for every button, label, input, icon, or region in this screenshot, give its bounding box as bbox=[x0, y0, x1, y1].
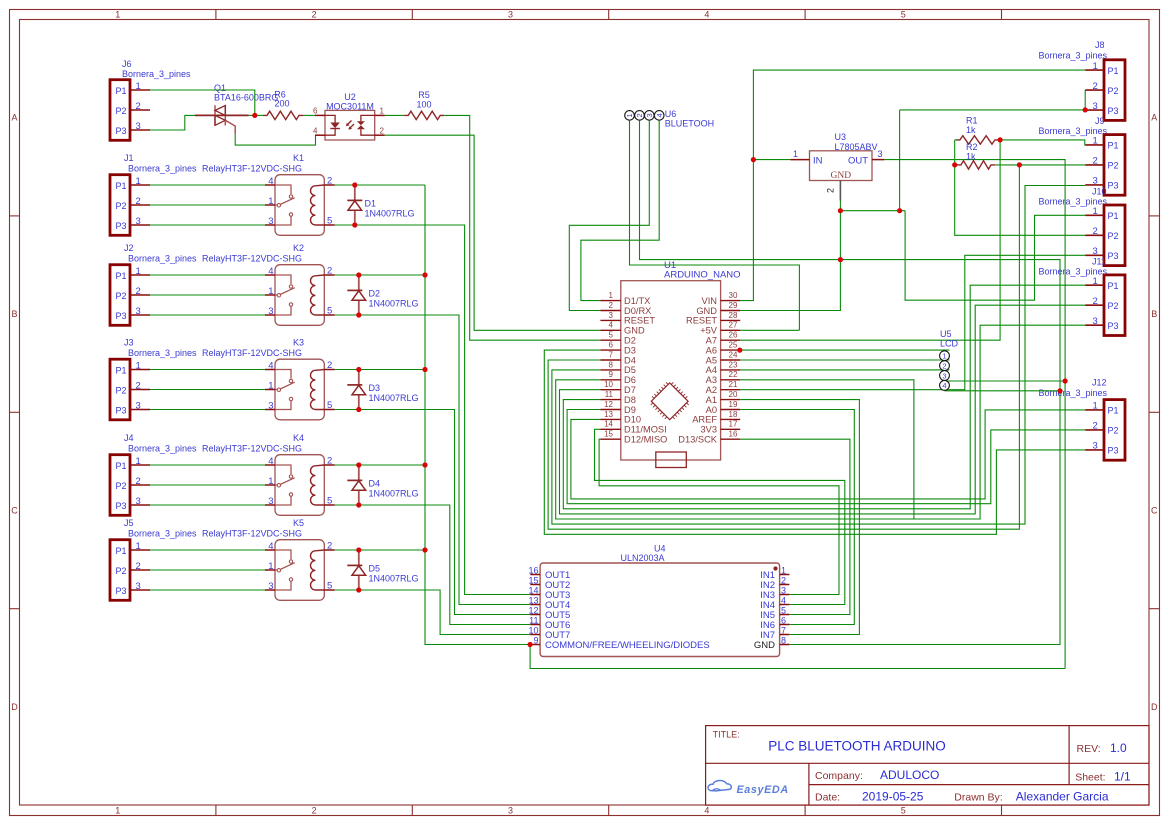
svg-text:J4: J4 bbox=[124, 433, 134, 443]
svg-text:10: 10 bbox=[528, 625, 538, 635]
svg-text:U4: U4 bbox=[654, 544, 666, 554]
wire U6 pin3 to U1 D0/RX bbox=[569, 120, 649, 310]
wire U1 D7 to J11 P2 bbox=[560, 305, 1086, 514]
svg-text:1: 1 bbox=[136, 360, 141, 371]
svg-text:J2: J2 bbox=[124, 243, 134, 253]
svg-text:D8: D8 bbox=[624, 395, 636, 405]
wire U1 D3 to J12 P3 bbox=[544, 350, 1085, 534]
svg-text:1.0: 1.0 bbox=[1110, 741, 1127, 755]
svg-text:3: 3 bbox=[508, 10, 513, 20]
svg-text:P2: P2 bbox=[1108, 301, 1119, 311]
svg-text:J5: J5 bbox=[124, 518, 134, 528]
svg-text:TITLE:: TITLE: bbox=[713, 730, 740, 740]
svg-text:U2: U2 bbox=[344, 92, 356, 102]
svg-text:1k: 1k bbox=[966, 125, 976, 135]
svg-text:Q1: Q1 bbox=[214, 83, 226, 93]
svg-text:2: 2 bbox=[1093, 81, 1098, 92]
svg-text:D4: D4 bbox=[369, 479, 381, 489]
svg-text:A0: A0 bbox=[706, 405, 717, 415]
svg-text:LCD: LCD bbox=[940, 339, 959, 349]
svg-text:1: 1 bbox=[380, 107, 385, 116]
svg-text:Bornera_3_pines: Bornera_3_pines bbox=[1039, 126, 1108, 136]
svg-text:28: 28 bbox=[729, 311, 738, 320]
svg-text:3: 3 bbox=[136, 400, 141, 411]
svg-text:3: 3 bbox=[781, 585, 786, 595]
svg-text:1N4007RLG: 1N4007RLG bbox=[369, 489, 419, 499]
svg-text:U5: U5 bbox=[940, 329, 952, 339]
svg-text:D4: D4 bbox=[624, 355, 636, 365]
svg-text:1k: 1k bbox=[966, 152, 976, 162]
svg-text:GND: GND bbox=[696, 306, 717, 316]
svg-text:REV:: REV: bbox=[1077, 743, 1101, 755]
wire U1 D8 to J11 P1 bbox=[563, 285, 1085, 509]
svg-text:B: B bbox=[1151, 309, 1157, 319]
svg-text:13: 13 bbox=[528, 595, 538, 605]
svg-text:2: 2 bbox=[136, 286, 141, 297]
svg-text:D2: D2 bbox=[369, 289, 381, 299]
wire U1 D10 to J12 P1 bbox=[571, 410, 1085, 499]
svg-text:2: 2 bbox=[1093, 421, 1098, 432]
svg-text:2: 2 bbox=[635, 113, 644, 117]
diode D1 1N4007RLG bbox=[354, 185, 356, 200]
svg-text:P3: P3 bbox=[1108, 181, 1119, 191]
svg-text:A4: A4 bbox=[706, 365, 717, 375]
wire U1 A0 to U4 IN6 bbox=[740, 410, 854, 625]
svg-text:A1: A1 bbox=[706, 395, 717, 405]
wire J3 P3 to K3 pin3 bbox=[150, 409, 265, 411]
svg-text:D: D bbox=[1151, 702, 1158, 712]
wire U6 pin4 to U1 D1/TX bbox=[581, 120, 659, 300]
svg-text:10: 10 bbox=[604, 380, 613, 389]
svg-text:3: 3 bbox=[1093, 441, 1098, 452]
svg-text:P2: P2 bbox=[116, 201, 127, 211]
svg-text:P3: P3 bbox=[1108, 106, 1119, 116]
wire J1 P1 to K1 pin4 bbox=[150, 184, 265, 186]
wire R1 left to R2 node bbox=[954, 140, 956, 165]
svg-text:P2: P2 bbox=[1108, 231, 1119, 241]
svg-text:3: 3 bbox=[136, 581, 141, 592]
svg-text:Bornera_3_pines: Bornera_3_pines bbox=[1039, 267, 1108, 277]
svg-text:J11: J11 bbox=[1092, 257, 1106, 267]
svg-text:P1: P1 bbox=[1108, 406, 1119, 416]
svg-text:4: 4 bbox=[655, 113, 664, 117]
svg-text:D: D bbox=[11, 702, 18, 712]
wire J1 P3 to K1 pin3 bbox=[150, 224, 265, 226]
wire K3 pin2 to +12V rail bbox=[335, 369, 425, 371]
svg-text:D1/TX: D1/TX bbox=[624, 296, 650, 306]
svg-text:A7: A7 bbox=[706, 336, 717, 346]
svg-text:13: 13 bbox=[604, 410, 613, 419]
svg-text:R2: R2 bbox=[966, 142, 978, 152]
svg-text:5: 5 bbox=[901, 10, 906, 20]
svg-text:2: 2 bbox=[942, 361, 946, 370]
wire U1 A7 to R1 bbox=[740, 140, 1000, 340]
svg-text:2: 2 bbox=[1093, 156, 1098, 167]
svg-text:C: C bbox=[11, 506, 18, 516]
svg-text:P3: P3 bbox=[116, 405, 127, 415]
svg-text:A: A bbox=[11, 113, 17, 123]
wire U2 pin2 to U1 GND pin4 bbox=[385, 135, 601, 330]
wire R1 to J9 P1 bbox=[999, 140, 1085, 145]
wire K4 pin2 to +12V rail bbox=[335, 464, 425, 466]
svg-text:RelayHT3F-12VDC-SHG: RelayHT3F-12VDC-SHG bbox=[202, 529, 302, 539]
wire LCD pin4 row bbox=[945, 390, 1061, 392]
svg-text:7: 7 bbox=[781, 625, 786, 635]
svg-text:1: 1 bbox=[781, 565, 786, 575]
svg-text:6: 6 bbox=[781, 615, 786, 625]
svg-text:D11/MOSI: D11/MOSI bbox=[624, 425, 667, 435]
svg-text:3: 3 bbox=[942, 371, 946, 380]
svg-text:11: 11 bbox=[605, 390, 614, 399]
svg-text:17: 17 bbox=[729, 420, 738, 429]
wire U3 GND pin to rail bbox=[839, 201, 841, 211]
svg-text:2: 2 bbox=[1093, 226, 1098, 237]
wire ground rail bbox=[840, 210, 905, 212]
svg-text:29: 29 bbox=[729, 301, 738, 310]
wire J8 vertical bbox=[899, 110, 901, 211]
svg-text:P2: P2 bbox=[116, 481, 127, 491]
wire U1 D5 to J9 P3 bbox=[552, 186, 1085, 525]
svg-text:3: 3 bbox=[609, 311, 614, 320]
svg-text:100: 100 bbox=[416, 100, 431, 110]
svg-text:D5: D5 bbox=[369, 564, 381, 574]
svg-text:1: 1 bbox=[1093, 276, 1098, 287]
svg-text:K2: K2 bbox=[293, 243, 304, 253]
svg-text:Company:: Company: bbox=[815, 770, 863, 782]
svg-text:Bornera_3_pines: Bornera_3_pines bbox=[122, 69, 191, 79]
svg-text:P2: P2 bbox=[116, 385, 127, 395]
svg-text:2: 2 bbox=[136, 561, 141, 572]
svg-text:GND: GND bbox=[831, 171, 852, 181]
diode D2 1N4007RLG bbox=[358, 275, 360, 290]
svg-text:1: 1 bbox=[1093, 401, 1098, 412]
wire J2 P1 to K2 pin4 bbox=[150, 274, 265, 276]
svg-text:P2: P2 bbox=[1108, 86, 1119, 96]
svg-text:9: 9 bbox=[609, 370, 614, 379]
svg-text:D13/SCK: D13/SCK bbox=[678, 435, 718, 445]
svg-text:P3: P3 bbox=[1108, 321, 1119, 331]
wire U1 VIN to J8 P1 bbox=[740, 70, 1085, 301]
wire U4 COMMON jog to right rail bbox=[530, 645, 1065, 669]
svg-text:B: B bbox=[11, 309, 17, 319]
svg-text:+5V: +5V bbox=[700, 326, 718, 336]
svg-text:P1: P1 bbox=[1108, 211, 1119, 221]
svg-text:8: 8 bbox=[781, 635, 786, 645]
svg-text:EasyEDA: EasyEDA bbox=[737, 784, 789, 796]
svg-text:5: 5 bbox=[781, 605, 786, 615]
svg-text:12: 12 bbox=[604, 400, 613, 409]
svg-text:26: 26 bbox=[729, 331, 738, 340]
svg-text:U3: U3 bbox=[835, 132, 847, 142]
svg-text:2: 2 bbox=[609, 301, 614, 310]
svg-text:D3: D3 bbox=[624, 345, 636, 355]
svg-text:3: 3 bbox=[136, 306, 141, 317]
svg-text:1: 1 bbox=[625, 113, 634, 117]
wire +12V rail to U4 COMMON pin9 bbox=[425, 185, 530, 645]
svg-text:11: 11 bbox=[529, 615, 538, 625]
wire U1 A4 to LCD pin3 bbox=[740, 369, 949, 371]
svg-text:2: 2 bbox=[136, 476, 141, 487]
svg-text:RESET: RESET bbox=[624, 316, 655, 326]
wire K2 pin2 to +12V rail bbox=[335, 274, 425, 276]
logo EasyEDA bbox=[708, 780, 731, 790]
svg-text:K5: K5 bbox=[293, 518, 304, 528]
wire J4 P2 to K4 pin1 bbox=[150, 484, 265, 486]
svg-text:1: 1 bbox=[1093, 206, 1098, 217]
svg-text:7: 7 bbox=[609, 350, 614, 359]
svg-text:4: 4 bbox=[942, 381, 946, 390]
svg-text:A2: A2 bbox=[706, 385, 717, 395]
svg-text:D2: D2 bbox=[624, 336, 636, 346]
svg-text:RelayHT3F-12VDC-SHG: RelayHT3F-12VDC-SHG bbox=[202, 164, 302, 174]
svg-text:Bornera_3_pines: Bornera_3_pines bbox=[128, 164, 197, 174]
wire J8 P3 to ground rail bbox=[900, 109, 1086, 111]
wire K1 pin2 to +12V rail bbox=[335, 184, 425, 186]
wire J6 P1 to triac node bbox=[150, 90, 255, 115]
svg-text:Bornera_3_pines: Bornera_3_pines bbox=[1039, 197, 1108, 207]
svg-text:P3: P3 bbox=[116, 501, 127, 511]
svg-text:1: 1 bbox=[942, 352, 946, 361]
svg-text:P1: P1 bbox=[116, 461, 127, 471]
svg-text:ULN2003A: ULN2003A bbox=[621, 553, 665, 563]
svg-text:15: 15 bbox=[528, 575, 538, 585]
svg-text:RelayHT3F-12VDC-SHG: RelayHT3F-12VDC-SHG bbox=[202, 444, 302, 454]
svg-text:Bornera_3_pines: Bornera_3_pines bbox=[1039, 388, 1108, 398]
svg-text:2: 2 bbox=[312, 10, 317, 20]
svg-text:Bornera_3_pines: Bornera_3_pines bbox=[128, 444, 197, 454]
svg-text:Sheet:: Sheet: bbox=[1075, 772, 1105, 784]
wire J5 P3 to K5 pin3 bbox=[150, 589, 265, 591]
svg-text:Alexander Garcia: Alexander Garcia bbox=[1016, 790, 1109, 804]
svg-text:6: 6 bbox=[609, 341, 614, 350]
svg-text:1N4007RLG: 1N4007RLG bbox=[369, 299, 419, 309]
wire ground rail to J10 P1 bbox=[905, 211, 1085, 301]
wire U1 D12 to U4 IN3 bbox=[599, 439, 839, 594]
svg-text:23: 23 bbox=[729, 360, 738, 369]
svg-text:3: 3 bbox=[1093, 101, 1098, 112]
wire J4 P3 to K4 pin3 bbox=[150, 504, 265, 506]
svg-text:3: 3 bbox=[1093, 316, 1098, 327]
svg-text:K4: K4 bbox=[293, 433, 304, 443]
wire U1 D11 to U4 IN4 bbox=[595, 429, 845, 604]
svg-text:P3: P3 bbox=[1108, 251, 1119, 261]
junction dots overlay bbox=[352, 182, 357, 187]
svg-text:P1: P1 bbox=[116, 86, 127, 96]
svg-text:U6: U6 bbox=[665, 109, 677, 119]
wire U3 IN to VIN rail bbox=[753, 159, 790, 161]
svg-text:BTA16-600BRG: BTA16-600BRG bbox=[214, 93, 278, 103]
svg-text:ARDUINO_NANO: ARDUINO_NANO bbox=[664, 270, 741, 281]
wire U1 A6 to LCD pin1 bbox=[740, 349, 949, 351]
svg-text:IN: IN bbox=[813, 155, 823, 166]
svg-text:P3: P3 bbox=[116, 126, 127, 136]
svg-text:30: 30 bbox=[729, 291, 738, 300]
svg-text:1: 1 bbox=[136, 266, 141, 277]
svg-text:1/1: 1/1 bbox=[1114, 770, 1131, 784]
svg-text:RelayHT3F-12VDC-SHG: RelayHT3F-12VDC-SHG bbox=[202, 254, 302, 264]
svg-text:3: 3 bbox=[508, 806, 513, 816]
svg-text:A5: A5 bbox=[706, 355, 717, 365]
svg-text:A: A bbox=[1151, 113, 1157, 123]
wire U1 A3 bbox=[740, 380, 914, 519]
svg-text:P3: P3 bbox=[1108, 446, 1119, 456]
wire R2 to J9 P2 bbox=[995, 164, 1085, 166]
wire U1 D4 to R2 node bbox=[548, 165, 1019, 529]
svg-text:2: 2 bbox=[136, 196, 141, 207]
svg-text:2: 2 bbox=[781, 575, 786, 585]
wire J2 P2 to K2 pin1 bbox=[150, 294, 265, 296]
svg-text:1: 1 bbox=[136, 541, 141, 552]
svg-text:P2: P2 bbox=[1108, 161, 1119, 171]
svg-text:COMMON/FREE/WHEELING/DIODES: COMMON/FREE/WHEELING/DIODES bbox=[545, 640, 710, 651]
svg-text:27: 27 bbox=[729, 321, 738, 330]
svg-text:Bornera_3_pines: Bornera_3_pines bbox=[128, 254, 197, 264]
wire K5 pin2 to +12V rail bbox=[335, 549, 425, 551]
header U5 LCD pins bbox=[940, 351, 950, 361]
svg-text:1: 1 bbox=[136, 176, 141, 187]
svg-text:P2: P2 bbox=[116, 106, 127, 116]
wire U1 GND29 to ground rail bbox=[740, 211, 840, 311]
svg-text:BLUETOOH: BLUETOOH bbox=[665, 119, 714, 129]
svg-text:3: 3 bbox=[136, 496, 141, 507]
wire J2 P3 to K2 pin3 bbox=[150, 314, 265, 316]
svg-text:25: 25 bbox=[729, 341, 738, 350]
svg-text:P3: P3 bbox=[116, 586, 127, 596]
svg-text:4: 4 bbox=[704, 806, 709, 816]
wire K4 pin5 to U4 OUT6 bbox=[335, 505, 531, 625]
svg-text:3: 3 bbox=[136, 121, 141, 132]
svg-text:R5: R5 bbox=[418, 90, 430, 100]
wire J3 P2 to K3 pin1 bbox=[150, 389, 265, 391]
svg-text:4: 4 bbox=[704, 10, 709, 20]
wire U6 pin2 to U4 GND pin8 bbox=[640, 120, 1061, 644]
svg-text:K1: K1 bbox=[293, 153, 304, 163]
svg-text:J3: J3 bbox=[124, 338, 134, 348]
svg-text:1: 1 bbox=[115, 10, 120, 20]
svg-text:D7: D7 bbox=[624, 385, 636, 395]
wire J3 P1 to K3 pin4 bbox=[150, 369, 265, 371]
wire U1 +5V to U6 pin1 bbox=[740, 329, 799, 331]
svg-text:20: 20 bbox=[729, 390, 738, 399]
svg-text:D9: D9 bbox=[624, 405, 636, 415]
svg-text:14: 14 bbox=[528, 585, 538, 595]
diode D3 1N4007RLG bbox=[358, 370, 360, 385]
svg-text:1: 1 bbox=[136, 81, 141, 92]
svg-text:200: 200 bbox=[274, 99, 289, 109]
svg-text:3V3: 3V3 bbox=[700, 425, 717, 435]
wire R2 node to J10 P2 bbox=[955, 165, 1085, 235]
svg-text:D6: D6 bbox=[624, 375, 636, 385]
svg-text:P2: P2 bbox=[116, 566, 127, 576]
wire J6 P3 to Q1 bbox=[150, 115, 195, 130]
wire J5 P2 to K5 pin1 bbox=[150, 569, 265, 571]
svg-text:C: C bbox=[1151, 506, 1158, 516]
svg-text:1: 1 bbox=[1093, 61, 1098, 72]
wire U1 A5 to LCD pin2 bbox=[740, 359, 949, 361]
svg-text:2: 2 bbox=[312, 806, 317, 816]
svg-text:Drawn By:: Drawn By: bbox=[954, 792, 1002, 804]
diode D4 1N4007RLG bbox=[358, 465, 360, 480]
wire K5 pin5 to U4 OUT7 bbox=[335, 590, 531, 635]
svg-text:16: 16 bbox=[729, 430, 738, 439]
svg-text:J10: J10 bbox=[1092, 187, 1107, 197]
svg-text:22: 22 bbox=[729, 370, 738, 379]
svg-text:12: 12 bbox=[528, 605, 538, 615]
svg-text:2: 2 bbox=[380, 127, 385, 136]
wire K1 pin5 to U4 OUT3 bbox=[335, 225, 531, 595]
svg-text:RESET: RESET bbox=[686, 316, 717, 326]
wire U2 pin1 to R5 bbox=[385, 114, 405, 116]
wire U1 A1 to U4 IN7 bbox=[740, 400, 859, 635]
svg-text:OUT: OUT bbox=[848, 155, 868, 166]
svg-text:D0/RX: D0/RX bbox=[624, 306, 651, 316]
svg-text:3: 3 bbox=[1093, 246, 1098, 257]
svg-text:2: 2 bbox=[1093, 296, 1098, 307]
svg-text:J6: J6 bbox=[122, 59, 132, 69]
svg-text:3: 3 bbox=[878, 149, 883, 159]
svg-text:RelayHT3F-12VDC-SHG: RelayHT3F-12VDC-SHG bbox=[202, 348, 302, 358]
svg-text:1: 1 bbox=[136, 456, 141, 467]
svg-text:P1: P1 bbox=[116, 546, 127, 556]
svg-text:P1: P1 bbox=[116, 365, 127, 375]
svg-text:P3: P3 bbox=[116, 311, 127, 321]
svg-text:9: 9 bbox=[533, 635, 538, 645]
svg-text:A3: A3 bbox=[706, 375, 717, 385]
svg-text:4: 4 bbox=[313, 127, 318, 136]
wire J5 P1 to K5 pin4 bbox=[150, 549, 265, 551]
svg-text:4: 4 bbox=[609, 321, 614, 330]
wire U6 pin1 to +5V bbox=[630, 120, 800, 330]
svg-text:1: 1 bbox=[793, 149, 798, 159]
wire U1 D13/SCK to U4 IN5 bbox=[740, 439, 850, 614]
svg-text:D5: D5 bbox=[624, 365, 636, 375]
svg-text:3: 3 bbox=[136, 216, 141, 227]
svg-text:P2: P2 bbox=[116, 291, 127, 301]
svg-text:AREF: AREF bbox=[692, 415, 717, 425]
svg-text:D1: D1 bbox=[365, 199, 377, 209]
diode D5 1N4007RLG bbox=[358, 550, 360, 565]
title block bbox=[706, 726, 1149, 806]
wire U1 D9 to J12 P2 bbox=[567, 410, 1085, 504]
wire K3 pin5 to U4 OUT5 bbox=[335, 410, 531, 615]
svg-text:21: 21 bbox=[729, 380, 738, 389]
svg-text:4: 4 bbox=[781, 595, 786, 605]
wire U1 A2 to J10 P3 bbox=[740, 255, 1085, 389]
wire U3 OUT +5V rail bbox=[884, 160, 1065, 669]
svg-text:P3: P3 bbox=[116, 221, 127, 231]
svg-text:2: 2 bbox=[136, 101, 141, 112]
svg-text:2: 2 bbox=[826, 188, 836, 193]
svg-text:VIN: VIN bbox=[702, 296, 718, 306]
svg-text:1: 1 bbox=[609, 291, 614, 300]
svg-text:1: 1 bbox=[1093, 136, 1098, 147]
svg-text:P1: P1 bbox=[1108, 141, 1119, 151]
wire U1 D6 to J11 P3 bbox=[556, 325, 1085, 519]
svg-text:Date:: Date: bbox=[815, 792, 840, 804]
wire K2 pin5 to U4 OUT4 bbox=[335, 315, 531, 605]
svg-text:6: 6 bbox=[313, 107, 318, 116]
svg-text:P1: P1 bbox=[116, 271, 127, 281]
svg-text:P1: P1 bbox=[1108, 66, 1119, 76]
svg-text:PLC BLUETOOTH ARDUINO: PLC BLUETOOTH ARDUINO bbox=[768, 739, 946, 754]
svg-text:ADULOCO: ADULOCO bbox=[880, 768, 939, 782]
svg-text:J1: J1 bbox=[124, 153, 134, 163]
wire Q1 to R6 bbox=[249, 114, 264, 116]
svg-text:D12/MISO: D12/MISO bbox=[624, 435, 667, 445]
svg-text:A6: A6 bbox=[706, 345, 717, 355]
svg-text:5: 5 bbox=[901, 806, 906, 816]
svg-text:P2: P2 bbox=[1108, 426, 1119, 436]
